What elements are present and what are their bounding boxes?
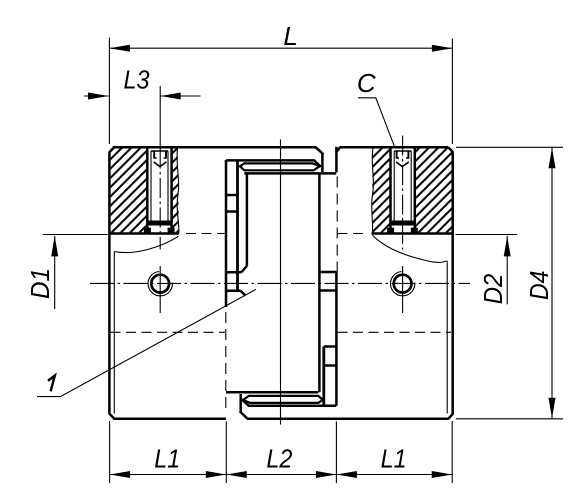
svg-text:D2: D2: [478, 273, 508, 304]
right screw body right side: [410, 151, 412, 222]
arrowhead L left: [109, 45, 129, 52]
right hub bore top edge in section: [372, 232, 452, 235]
sleeve right edge: [318, 173, 321, 392]
bottom claw root second line: [226, 391, 318, 394]
dimension L line: [109, 47, 452, 49]
leader line C: [358, 98, 395, 147]
left hub left edge: [108, 152, 111, 415]
left screw hole left wall: [146, 148, 149, 232]
top claw tip right face: [321, 154, 324, 172]
arrowhead L right: [432, 45, 453, 52]
left hub bottom-left corner chamfer: [109, 414, 114, 419]
dimension D4 extension line bottom: [456, 418, 563, 420]
left screw body right side: [167, 151, 169, 222]
arrowhead D1: [51, 236, 58, 257]
right hub bore bottom hidden line: [338, 331, 452, 333]
left hub right face line (visible part): [225, 160, 228, 307]
dimension D1 arrow shaft: [54, 236, 56, 309]
left hub top-left corner chamfer: [109, 147, 114, 152]
left screw axis centerline: [159, 149, 161, 250]
left partial-section break line vertical: [177, 148, 179, 233]
svg-text:L: L: [283, 21, 297, 51]
hatch right hub section right of screw hole: [416, 148, 452, 232]
sleeve left chamfer to middle arm: [241, 266, 247, 296]
coupling mid-plane vertical line: [280, 140, 282, 425]
right screw axis centerline: [402, 136, 404, 250]
left hub bore bottom hidden line: [111, 331, 225, 333]
right screw bottom face: [392, 221, 414, 226]
svg-text:L3: L3: [124, 64, 150, 94]
right screw hole left wall: [389, 148, 392, 232]
hatch left hub section left of screw hole: [111, 148, 147, 232]
bottom extension line at left hub right face: [225, 422, 227, 484]
dimension L extension line left: [108, 38, 110, 144]
right front tapped hole: inner circle: [394, 275, 412, 293]
left front tapped hole: inner circle: [151, 275, 169, 293]
right partial-section break line curve: [373, 235, 447, 262]
dimension D4 extension line top: [456, 146, 563, 148]
dimension L3 extension line (screw axis): [159, 86, 161, 147]
right front screw hole vertical centerline: [402, 266, 404, 313]
right hub right edge: [451, 151, 454, 414]
left screw hex socket: [154, 151, 166, 159]
dimension D2 arrow shaft: [506, 236, 508, 304]
arrowhead L1 left: [110, 471, 131, 478]
spider arm block middle left: [226, 272, 241, 291]
svg-text:C: C: [357, 68, 376, 98]
svg-text:D1: D1: [25, 268, 55, 299]
svg-text:L1: L1: [381, 444, 407, 474]
right hub left face line upper visible part: [335, 147, 338, 173]
left screw top face: [151, 150, 168, 152]
bottom claw root line: [242, 399, 336, 406]
arrowhead L2 right / L1 left pair: [316, 471, 337, 478]
right hub bore top hidden line: [338, 233, 367, 235]
right hub bottom-right corner chamfer: [448, 414, 452, 419]
leader line item 1: [37, 289, 256, 396]
arrowhead D4 top: [549, 148, 556, 169]
arrowhead L1 right / L2 left pair: [206, 471, 227, 478]
label item 1: [48, 376, 55, 392]
left hub front chamfer line left face: [113, 252, 115, 414]
left hub bore top hidden line: [186, 233, 225, 235]
arrowhead D4 bottom: [549, 398, 556, 419]
top claw root second line: [244, 172, 336, 175]
top claw root line: [226, 160, 321, 167]
right hub top-right corner chamfer: [448, 147, 453, 152]
dimension L3 line left part: [84, 95, 109, 97]
dimension D2 extension line: [456, 234, 518, 236]
left front tapped hole: thread arc: [148, 272, 172, 296]
hatch right hub section left of screw hole: [372, 148, 390, 232]
spider arm block lower right: [324, 347, 337, 366]
left hub bore top edge in section: [109, 232, 178, 235]
right hub left face line lower visible part: [335, 272, 338, 406]
right hub face hidden part: [336, 177, 338, 272]
bottom extension line at left hub left face: [109, 421, 111, 483]
left hub bottom edge: [114, 418, 226, 421]
hatch left hub section right of screw hole: [173, 148, 179, 232]
right screw top face: [394, 150, 411, 152]
svg-text:L2: L2: [266, 444, 292, 474]
right hub top edge: [340, 146, 449, 149]
bottom extension line at right hub right face: [451, 421, 453, 483]
right screw thread end blobs: [387, 228, 394, 233]
left screw bottom face: [148, 221, 170, 226]
sleeve left edge (upper only): [246, 173, 249, 266]
right screw hole right wall: [414, 148, 417, 232]
right partial-section break line vertical: [372, 148, 374, 233]
left hub top edge continuing as top claw edge: [113, 147, 324, 154]
dimension L3 line right part: [160, 95, 200, 97]
right hub bottom edge continuing as bottom claw edge: [240, 411, 449, 418]
left front screw hole vertical centerline: [159, 266, 161, 313]
svg-text:D4: D4: [524, 271, 554, 301]
dimension D4 line: [551, 148, 553, 419]
dimension D1 extension line: [43, 234, 108, 236]
arrowhead L1 right end: [432, 471, 453, 478]
left partial-section break line curve: [114, 236, 178, 252]
bottom dimension line L1 L2 L1: [110, 474, 453, 476]
main horizontal centerline: [90, 282, 470, 284]
bottom extension line at right hub left face: [335, 422, 337, 484]
spider arm block upper left: [226, 195, 238, 212]
right front tapped hole: thread arc: [390, 272, 414, 296]
arrowhead L3 right (outside): [160, 93, 181, 100]
arrowhead L3 left (outside): [88, 93, 109, 100]
left screw thread end blobs: [144, 228, 151, 233]
svg-text:L1: L1: [154, 444, 180, 474]
right hub top-left corner chamfer: [336, 147, 340, 152]
spider arm block middle right: [319, 272, 336, 291]
dimension L extension line right: [451, 38, 453, 144]
spider wedge lower (pointed tooth): [243, 396, 323, 403]
bottom claw tip left face: [239, 394, 242, 412]
right screw body left side: [393, 151, 395, 222]
left screw hole right wall: [170, 148, 173, 232]
spider wedge upper (pointed tooth): [240, 163, 320, 170]
spider front face upper line: [236, 161, 239, 291]
left screw body left side: [150, 151, 152, 222]
right screw hex socket: [397, 151, 409, 159]
right hub front chamfer line right face: [446, 261, 448, 414]
arrowhead D2: [504, 236, 511, 257]
left hub face hidden continuation: [225, 312, 227, 410]
spider front face lower line: [322, 347, 325, 406]
